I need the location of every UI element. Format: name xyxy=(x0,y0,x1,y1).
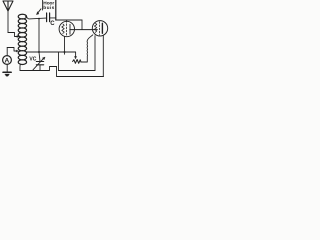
wire tube2 inner bottom lead xyxy=(94,36,96,71)
wire filament bus xyxy=(26,51,75,53)
label box right border / wire to bus xyxy=(55,0,57,20)
wire outer loop xyxy=(57,67,104,77)
wire top bus from coil to capacitor xyxy=(26,16,47,19)
wire meter bottom lead xyxy=(6,64,8,72)
tube V2 grid xyxy=(99,22,101,35)
tube V2 envelope xyxy=(92,21,107,36)
tube V1 plate xyxy=(69,24,71,34)
wire inner rect bottom xyxy=(59,70,96,72)
tube V1 filament xyxy=(62,24,64,33)
svg-text:A: A xyxy=(5,58,10,65)
wire grid coupling top xyxy=(56,19,82,21)
tube V2 filament xyxy=(94,23,96,32)
inductor L1 tuning coil xyxy=(18,14,26,64)
wire from capacitor to tube 1 xyxy=(50,17,56,19)
tube V2 plate xyxy=(101,23,103,33)
wire drop to coupling line xyxy=(81,20,83,30)
wire meter top lead xyxy=(6,48,8,56)
svg-text:VC: VC xyxy=(29,57,36,63)
rheostat zigzag xyxy=(73,60,81,64)
wire slider with arrowhead xyxy=(75,52,77,57)
meter A xyxy=(3,56,12,65)
wire inner rect left xyxy=(58,52,60,71)
wire VC bottom lead xyxy=(39,65,41,71)
wire coil bottom tail xyxy=(19,64,21,70)
wire antenna jog to coil tap xyxy=(8,33,17,37)
capacitor C xyxy=(47,13,50,22)
arrowhead coil tap xyxy=(16,50,18,52)
node junction dot VC riser xyxy=(38,51,40,53)
wire tube1 plate to tube2 grid xyxy=(70,29,98,31)
arrow across VC xyxy=(33,59,43,70)
svg-text:C: C xyxy=(50,21,55,27)
wire antenna lead xyxy=(7,11,9,33)
wire tube1 bottom lead xyxy=(64,37,66,55)
wire tank bottom bus xyxy=(20,67,57,71)
wire tube2 plate bottom lead xyxy=(102,35,104,76)
battery flex wavy lead xyxy=(81,35,93,62)
tube V1 envelope xyxy=(59,21,74,36)
svg-text:buis: buis xyxy=(43,5,54,11)
tube V1 grid xyxy=(66,21,68,37)
node junction dot tube1 lead xyxy=(64,51,66,53)
annotation arrow xyxy=(38,9,41,13)
variable capacitor VC plates xyxy=(36,62,43,65)
ground bar xyxy=(3,71,11,73)
wire VC riser xyxy=(39,19,40,62)
wire meter branch top xyxy=(7,48,16,52)
label box left border xyxy=(42,0,44,10)
node junction dot top bus xyxy=(38,18,40,20)
ground triangle xyxy=(5,74,10,76)
antenna xyxy=(3,1,13,11)
